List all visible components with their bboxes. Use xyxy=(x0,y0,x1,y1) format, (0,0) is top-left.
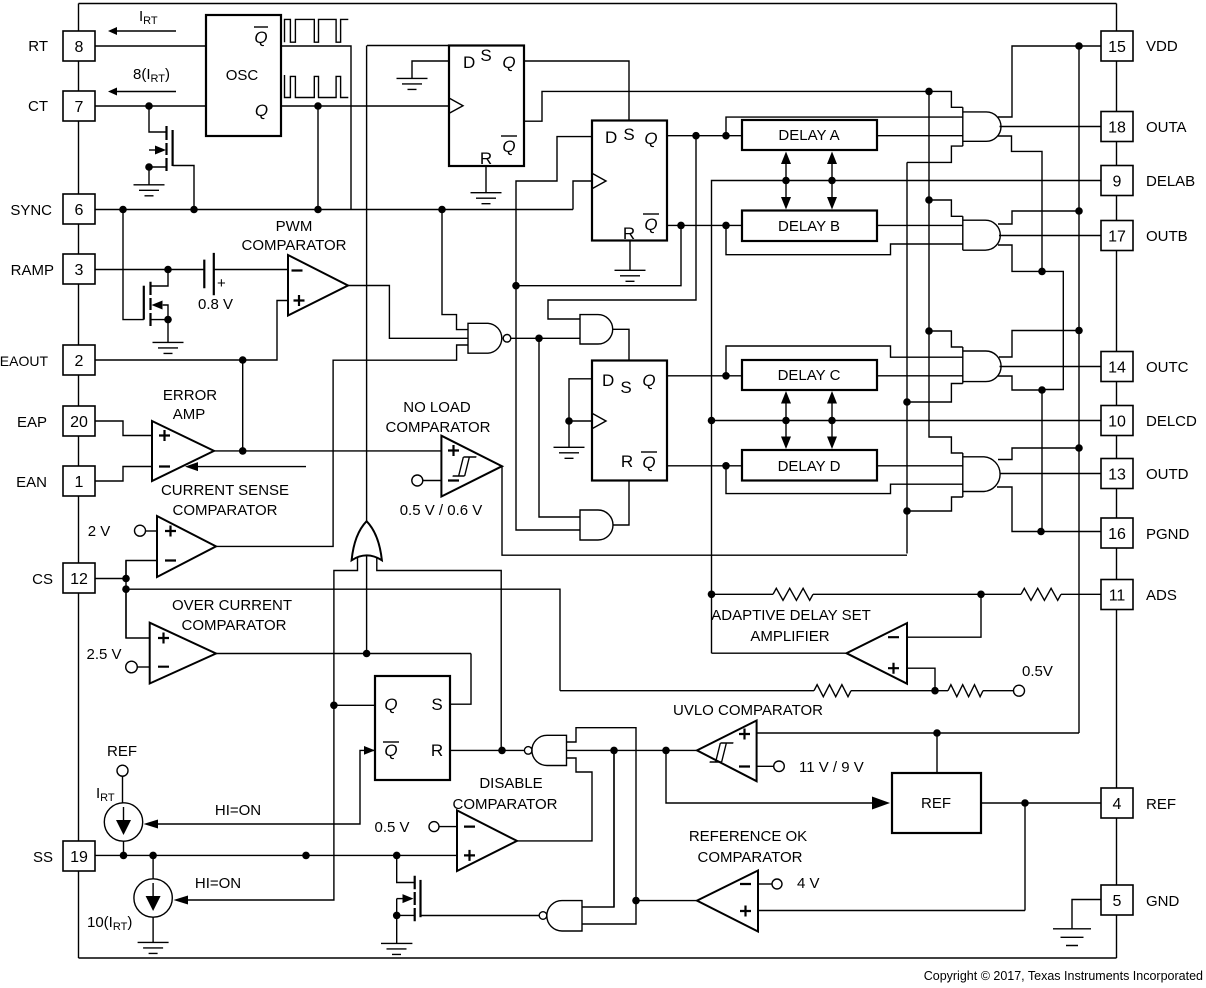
resistor R2 xyxy=(1021,588,1061,600)
svg-text:Q: Q xyxy=(254,28,267,47)
resistor R1 xyxy=(773,588,813,600)
svg-text:RT: RT xyxy=(28,38,48,55)
node RAMP-M2 xyxy=(164,266,172,274)
node Q-DFF1clk xyxy=(314,102,322,110)
svg-text:DELCD: DELCD xyxy=(1146,413,1197,430)
disable comparator xyxy=(457,810,517,871)
svg-text:S: S xyxy=(623,125,634,144)
resistor R3 xyxy=(814,685,851,697)
M3 gate bar xyxy=(419,880,421,917)
10(IRT) source top to SS line xyxy=(152,855,154,878)
DELAY A block xyxy=(742,120,877,150)
svg-text:R: R xyxy=(480,149,492,168)
N3 output to transistor M3 gate xyxy=(421,915,540,917)
U3 Qbar branch to gate D bottom xyxy=(726,466,963,494)
over current output to SR latch S xyxy=(216,653,471,655)
node U2 Q taps xyxy=(692,132,700,140)
svg-text:COMPARATOR: COMPARATOR xyxy=(385,419,490,436)
VDD bus vertical xyxy=(1078,46,1080,733)
transistor M1 CT discharge: drain jog xyxy=(149,106,167,132)
svg-text:7: 7 xyxy=(75,99,84,116)
gate D no-load input step xyxy=(907,497,963,511)
svg-text:0.8 V: 0.8 V xyxy=(198,296,233,313)
svg-text:Q: Q xyxy=(255,101,268,120)
A2 output to U3 S xyxy=(613,329,629,360)
gate A no-load input step xyxy=(907,146,963,162)
svg-text:+: + xyxy=(217,275,226,292)
UVLO output to NAND2 xyxy=(567,749,698,751)
U2 Q branch to gate A xyxy=(726,117,963,136)
svg-text:0.5 V: 0.5 V xyxy=(374,819,409,836)
UVLO plus wire to VDD bus and REF xyxy=(757,733,1079,773)
node U3 clock ground xyxy=(565,417,573,425)
svg-text:R: R xyxy=(623,224,635,243)
U1 D input ground xyxy=(397,61,450,89)
M3 channel bar xyxy=(414,876,416,921)
U3 clock triangle xyxy=(592,413,606,428)
gate D output to OUTD pin xyxy=(1001,473,1102,475)
pin 10 DELCD xyxy=(1101,406,1133,436)
svg-text:OUTB: OUTB xyxy=(1146,228,1188,245)
gate D VDD feed xyxy=(998,448,1079,460)
chip boundary bottom border xyxy=(79,957,1117,959)
SS pin wire xyxy=(95,854,397,856)
node DELAB taps xyxy=(782,177,790,185)
node N1 output xyxy=(535,335,543,343)
svg-text:ADS: ADS xyxy=(1146,587,1177,604)
svg-text:DELAB: DELAB xyxy=(1146,173,1195,190)
gate C output to OUTC pin xyxy=(1000,366,1102,368)
pin 1 EAN xyxy=(63,466,95,496)
svg-text:EAP: EAP xyxy=(17,414,47,431)
svg-text:HI=ON: HI=ON xyxy=(215,802,261,819)
node blanking bus taps xyxy=(903,398,911,406)
svg-text:S: S xyxy=(480,46,491,65)
U2 R input ground xyxy=(615,241,646,282)
svg-text:Q: Q xyxy=(502,137,515,156)
REF output branch to reference OK xyxy=(1024,803,1026,911)
svg-text:HI=ON: HI=ON xyxy=(195,875,241,892)
svg-text:D: D xyxy=(463,53,475,72)
U3 D and clock to ground xyxy=(554,379,593,459)
current source 10(IRT) xyxy=(134,879,172,917)
pin 17 OUTB xyxy=(1101,221,1133,251)
OR gate G1 (upward) xyxy=(352,521,382,560)
U2 Q output to DELAY A xyxy=(667,135,742,137)
svg-text:11: 11 xyxy=(1109,588,1126,605)
DELCD adjust arrows xyxy=(786,402,832,438)
svg-text:COMPARATOR: COMPARATOR xyxy=(697,849,802,866)
transistor M2 gate wire to SYNC xyxy=(123,210,144,320)
node SYNC taps xyxy=(119,206,127,214)
svg-text:S: S xyxy=(431,695,442,714)
A3 bottom input from U2 D net xyxy=(516,286,580,530)
DELCD pin wire xyxy=(712,420,1102,422)
disable plus wire from SS line xyxy=(397,854,457,856)
svg-text:20: 20 xyxy=(70,414,88,431)
U2 Qbar output to DELAY B xyxy=(667,224,742,226)
AND gate A3 (resets U3) xyxy=(580,510,613,540)
D flip-flop U1 (divide-by-2 top) xyxy=(449,46,524,167)
U2 Qbar branch to gate B bottom xyxy=(726,225,963,254)
NAND gate N1 (PWM) xyxy=(468,323,502,353)
svg-text:12: 12 xyxy=(70,571,88,588)
node clock bus taps xyxy=(925,88,933,96)
node U4 Q tap xyxy=(330,702,338,710)
ground at GND pin 5 xyxy=(1053,900,1101,946)
DELAY C output to gate C xyxy=(877,375,963,377)
resistor R4 xyxy=(948,685,983,697)
current sense comparator output to NAND1 input xyxy=(216,345,468,546)
0.5V terminal bubble xyxy=(1014,685,1025,696)
transistor M1 channel bar xyxy=(165,126,167,171)
UVLO comparator (left facing) xyxy=(697,721,757,782)
DELAY B output to gate B xyxy=(877,224,963,226)
N2 output to U4 R xyxy=(450,749,524,751)
waveform Qbar pulse train xyxy=(285,19,349,42)
svg-text:19: 19 xyxy=(70,849,88,866)
node UVLO output taps xyxy=(610,747,618,755)
node EAOUT tie xyxy=(239,356,247,364)
node VDD bus taps xyxy=(1075,42,1083,50)
gate B VDD feed xyxy=(998,211,1079,224)
node U2 D feedback xyxy=(512,282,520,290)
svg-text:REF: REF xyxy=(921,795,951,812)
soft-start clamp arrow to error amp xyxy=(198,466,306,468)
gate A couple to PGND net xyxy=(998,136,1042,271)
EAOUT tie vertical xyxy=(242,360,244,451)
svg-text:Q: Q xyxy=(644,129,657,148)
transistor M1 body arrow xyxy=(149,149,155,151)
transistor M2 channel bar xyxy=(149,282,151,326)
REF enable arrow from UVLO xyxy=(666,750,874,803)
DELAB adjust arrows xyxy=(786,163,832,198)
ADS amp plus wire xyxy=(907,668,935,691)
ground at M3 xyxy=(381,943,412,954)
svg-text:R: R xyxy=(621,452,633,471)
transistor M2 RAMP discharge: drain jog xyxy=(151,270,169,287)
DELAY D block xyxy=(742,450,877,481)
svg-text:15: 15 xyxy=(1108,39,1126,56)
svg-text:2.5 V: 2.5 V xyxy=(86,646,121,663)
svg-text:COMPARATOR: COMPARATOR xyxy=(241,237,346,254)
svg-text:GND: GND xyxy=(1146,893,1180,910)
reference OK 4V bubble xyxy=(772,879,782,889)
svg-text:PGND: PGND xyxy=(1146,526,1190,543)
pin 3 RAMP xyxy=(63,254,95,284)
svg-text:DELAY D: DELAY D xyxy=(778,458,841,475)
no-load minus bubble xyxy=(412,475,423,486)
svg-text:CURRENT SENSE: CURRENT SENSE xyxy=(161,482,289,499)
svg-text:1: 1 xyxy=(75,474,84,491)
node REF output tap xyxy=(1021,799,1029,807)
svg-text:R: R xyxy=(431,741,443,760)
gate C couple to PGND net xyxy=(998,376,1042,532)
node CT-M1 xyxy=(145,102,153,110)
svg-text:VDD: VDD xyxy=(1146,38,1178,55)
2V reference bubble xyxy=(135,525,146,536)
pin 14 OUTC xyxy=(1101,352,1133,382)
current sense comparator xyxy=(157,516,216,577)
ADS amp output to delay bus xyxy=(712,652,847,654)
U2 Qbar branch to D feedback xyxy=(516,225,681,285)
D flip-flop U2 (divide-by-2 bottom) xyxy=(592,121,667,241)
pin 9 DELAB xyxy=(1101,166,1133,196)
U1 R input ground xyxy=(471,166,502,204)
DELAY D output to gate D xyxy=(877,465,963,467)
ground at M2 source xyxy=(153,342,184,353)
disable output to NAND2 xyxy=(517,758,592,841)
U3 Q output to DELAY C xyxy=(667,375,742,377)
no-load output to blanking bus xyxy=(502,466,907,555)
oscillator OSC block xyxy=(206,15,281,136)
svg-text:SYNC: SYNC xyxy=(10,202,52,219)
SR latch U4 soft-start xyxy=(375,676,450,780)
svg-text:0.5 V / 0.6 V: 0.5 V / 0.6 V xyxy=(400,502,483,519)
reference OK comparator (left facing) xyxy=(697,871,758,932)
wire SYNC pin line xyxy=(95,209,573,211)
ADS pin wire with resistors xyxy=(712,593,774,595)
DELAY C block xyxy=(742,360,877,390)
A3 output to U3 R xyxy=(613,481,629,526)
wire OSC Q output to DFF1 clock xyxy=(281,105,449,107)
no-load comparator xyxy=(441,436,502,497)
U1 clock triangle xyxy=(449,98,463,113)
svg-text:REF: REF xyxy=(1146,796,1176,813)
reference OK plus wire from REF xyxy=(758,910,1025,912)
svg-text:UVLO COMPARATOR: UVLO COMPARATOR xyxy=(673,702,823,719)
transistor M3 soft-start pulldown: drain jog xyxy=(397,855,415,882)
svg-text:13: 13 xyxy=(1108,467,1126,484)
svg-text:PWM: PWM xyxy=(276,218,313,235)
wire Q line down to SYNC line xyxy=(317,106,319,210)
node 0.5V rail tap xyxy=(931,687,939,695)
output AND gate C xyxy=(963,347,1001,384)
svg-text:2 V: 2 V xyxy=(88,523,111,540)
EAOUT pin wire xyxy=(95,301,288,361)
output AND gate A xyxy=(963,107,1001,146)
ground at M1 source xyxy=(134,185,165,196)
ADS amp minus wire xyxy=(907,594,981,637)
node U3 Qbar tap xyxy=(722,462,730,470)
pin 13 OUTD xyxy=(1101,459,1133,489)
D flip-flop U3 (C/D latch) xyxy=(592,361,667,481)
N2 top input from reference OK xyxy=(567,728,637,924)
G1 right input stub xyxy=(377,557,501,750)
wire CT pin to OSC xyxy=(95,105,206,107)
error amp output line to no-load comparator xyxy=(214,450,441,452)
svg-text:4 V: 4 V xyxy=(797,875,820,892)
UVLO 11V/9V bubble xyxy=(774,761,785,772)
node M3 source xyxy=(393,912,401,920)
transistor M1 source wire xyxy=(149,167,167,185)
no-load hysteresis symbol xyxy=(453,457,477,476)
svg-text:Copyright © 2017, Texas Instru: Copyright © 2017, Texas Instruments Inco… xyxy=(924,969,1203,983)
U2 D input wire xyxy=(516,137,592,286)
node SS line taps xyxy=(120,852,128,860)
pin 6 SYNC xyxy=(63,194,95,224)
node M1 source xyxy=(145,163,153,171)
svg-text:6: 6 xyxy=(75,202,84,219)
REF terminal bubble at IRT source xyxy=(117,765,128,776)
svg-text:DELAY A: DELAY A xyxy=(778,127,839,144)
PWM comparator xyxy=(288,255,348,316)
svg-text:Q: Q xyxy=(642,371,655,390)
disable 0.5V bubble xyxy=(429,822,439,832)
U4 Qbar output arrowed wire to IRT source xyxy=(158,750,375,824)
svg-text:REF: REF xyxy=(107,743,137,760)
wire OSC Qbar output to vertical x351 xyxy=(281,46,351,210)
pin 19 SS xyxy=(63,841,95,871)
UVLO net branch to N3 xyxy=(613,750,615,907)
UVLO hysteresis symbol xyxy=(710,743,734,762)
wire RT pin to OSC xyxy=(95,45,206,47)
node U3 Q tap xyxy=(722,372,730,380)
svg-text:9: 9 xyxy=(1113,174,1122,191)
svg-text:8: 8 xyxy=(75,39,84,56)
svg-text:REFERENCE OK: REFERENCE OK xyxy=(689,828,807,845)
reference OK output xyxy=(636,900,697,902)
U3 Qbar output to DELAY D xyxy=(667,465,742,467)
svg-text:OSC: OSC xyxy=(226,67,259,84)
svg-text:ERROR: ERROR xyxy=(163,387,217,404)
svg-text:10: 10 xyxy=(1108,414,1126,431)
M3 body arrow xyxy=(397,898,403,900)
N1 output to AND2 xyxy=(511,337,580,339)
node reference OK output tap xyxy=(632,897,640,905)
svg-text:EAN: EAN xyxy=(16,474,47,491)
DELAY B block xyxy=(742,211,877,242)
svg-text:OUTA: OUTA xyxy=(1146,119,1187,136)
svg-text:CT: CT xyxy=(28,98,48,115)
gate B output to OUTB pin xyxy=(999,235,1101,237)
svg-text:11 V / 9 V: 11 V / 9 V xyxy=(799,759,864,776)
svg-text:Q: Q xyxy=(642,453,655,472)
pin 15 VDD xyxy=(1101,31,1133,61)
svg-text:AMPLIFIER: AMPLIFIER xyxy=(750,628,829,645)
node U4 R line tap xyxy=(498,747,506,755)
CS feed rail to ADS amp xyxy=(560,690,814,692)
pin 7 CT xyxy=(63,91,95,121)
G1 output to U1 S input xyxy=(366,46,368,522)
svg-text:DISABLE: DISABLE xyxy=(479,775,542,792)
transistor M2 gate bar xyxy=(143,286,145,320)
gate B top input step from clock bus xyxy=(929,91,963,216)
svg-text:CS: CS xyxy=(32,571,53,588)
svg-text:0.5V: 0.5V xyxy=(1022,663,1053,680)
NAND gate N2 (left facing, resets U4) xyxy=(532,735,567,765)
10(IRT) source to ground xyxy=(138,917,169,953)
adaptive delay set amplifier (left facing) xyxy=(847,623,908,684)
M3 source wire xyxy=(397,915,415,943)
error amplifier xyxy=(152,421,214,481)
NAND1 out branch to A2 and A3 xyxy=(539,338,580,517)
gate C VDD feed xyxy=(999,331,1079,358)
svg-text:14: 14 xyxy=(1108,360,1126,377)
gate C top input step from clock bus xyxy=(929,200,963,347)
gate A output to OUTA pin xyxy=(1000,126,1102,128)
svg-text:D: D xyxy=(605,128,617,147)
gate B couple to PGND net xyxy=(998,245,1063,390)
pin 18 OUTA xyxy=(1101,112,1133,142)
svg-text:AMP: AMP xyxy=(173,406,206,423)
svg-text:NO LOAD: NO LOAD xyxy=(403,399,471,416)
gate D couple to PGND pin 16 xyxy=(997,487,1101,532)
U1 S input wire from OR output xyxy=(367,45,487,47)
svg-text:EAOUT: EAOUT xyxy=(0,353,48,369)
pin 8 RT xyxy=(63,31,95,61)
REF regulator block xyxy=(892,773,981,833)
pin 4 REF xyxy=(1101,788,1133,818)
pin 12 CS xyxy=(63,563,95,593)
DELAY A output to gate A xyxy=(877,135,963,137)
REF output to pin 4 xyxy=(981,802,1101,804)
U3 Q branch to gate C xyxy=(726,346,963,376)
svg-text:17: 17 xyxy=(1108,229,1126,246)
node U2 Qbar taps xyxy=(677,222,685,230)
chip boundary left border segments xyxy=(78,4,80,959)
svg-text:4: 4 xyxy=(1113,796,1122,813)
IRT source to SS line xyxy=(123,841,125,855)
pin 11 ADS xyxy=(1101,580,1133,610)
U1 Q output to U2 S xyxy=(524,61,629,121)
DELAB pin wire xyxy=(712,181,1102,654)
2.5V reference bubble xyxy=(126,661,138,673)
output AND gate B xyxy=(963,216,1001,250)
gate C no-load input step xyxy=(907,384,963,403)
U4 Q output wire xyxy=(334,704,375,706)
gate D top input step from clock bus xyxy=(929,331,963,453)
waveform Q pulse train xyxy=(285,75,349,98)
svg-text:D: D xyxy=(602,371,614,390)
svg-text:2: 2 xyxy=(75,353,84,370)
svg-text:5: 5 xyxy=(1113,893,1122,910)
node ADS line taps xyxy=(708,591,716,599)
svg-text:OVER CURRENT: OVER CURRENT xyxy=(172,597,292,614)
current sense comparator minus wire from CS xyxy=(95,561,157,579)
svg-text:RAMP: RAMP xyxy=(11,262,54,279)
node CS pin taps xyxy=(122,575,130,583)
N3 top input from UVLO net xyxy=(582,750,614,907)
svg-text:ADAPTIVE DELAY SET: ADAPTIVE DELAY SET xyxy=(711,607,871,624)
transistor M2 body arrow xyxy=(163,305,168,320)
pin 20 EAP xyxy=(63,406,95,436)
svg-text:OUTC: OUTC xyxy=(1146,359,1189,376)
current source IRT xyxy=(104,803,142,841)
svg-text:Q: Q xyxy=(384,741,397,760)
svg-text:3: 3 xyxy=(75,262,84,279)
U4 S input from over-current comparator xyxy=(450,654,471,705)
over current comparator xyxy=(150,623,216,684)
no-load blanking bus vertical xyxy=(906,162,908,553)
U2 clock triangle xyxy=(592,173,606,188)
G1 left input stub xyxy=(188,557,358,900)
AND gate A2 (sets U3) xyxy=(580,315,613,344)
transistor M2 source wire xyxy=(151,320,169,343)
svg-text:COMPARATOR: COMPARATOR xyxy=(172,502,277,519)
chip boundary right border segments xyxy=(1116,4,1118,959)
U2 Q branch down to AND2 xyxy=(548,136,696,319)
wire battery to PWM comparator minus xyxy=(213,269,288,271)
wire RAMP pin to battery xyxy=(95,269,205,271)
over current comparator plus wire from CS xyxy=(126,589,150,638)
svg-text:18: 18 xyxy=(1108,120,1126,137)
node UVLO plus REF tap xyxy=(933,729,941,737)
transistor M1 gate wire to SYNC xyxy=(173,166,194,210)
node PGND couple taps xyxy=(1038,268,1046,276)
U2 clock wire from SYNC xyxy=(573,181,592,210)
svg-text:Q: Q xyxy=(502,53,515,72)
